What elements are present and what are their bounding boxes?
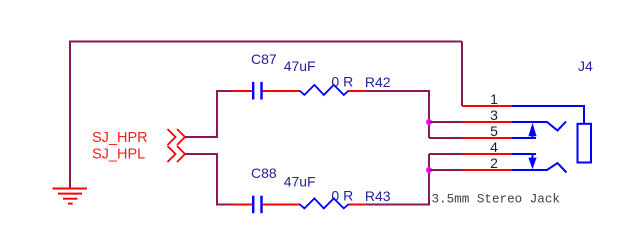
label R43 (365, 188, 391, 204)
svg-text:J4: J4 (578, 58, 593, 74)
pin lead C87 left (233, 90, 252, 92)
pin lead R43 right (349, 204, 365, 206)
pin lead C87 right (263, 90, 300, 92)
resistor R42 (299, 85, 348, 95)
wire pin3 row (429, 121, 462, 123)
svg-text:C88: C88 (251, 165, 277, 181)
value 47uF (C88) (284, 174, 316, 190)
svg-text:3.5mm Stereo Jack: 3.5mm Stereo Jack (432, 193, 560, 207)
wire pin1 branch vertical (461, 42, 463, 107)
pin 4 lead (462, 153, 512, 155)
wire C87 row left (216, 90, 233, 92)
label J4 (578, 58, 593, 74)
pin number 5 (490, 123, 498, 139)
wire SJ_HPR to C87 (186, 91, 218, 137)
pin lead C88 right (263, 204, 300, 206)
pin2 internal wire and ring contact (512, 163, 567, 173)
svg-text:C87: C87 (251, 51, 277, 67)
down arrow (tip contact, pin4) (528, 154, 536, 169)
pin5 internal wire (512, 137, 536, 139)
svg-text:2: 2 (490, 155, 498, 171)
off-page connector SJ_HPL (168, 146, 186, 162)
pin 3 lead (462, 121, 512, 123)
wire R42 to junction (365, 91, 429, 138)
svg-text:3: 3 (490, 107, 498, 123)
connector J4 sleeve rectangle (578, 124, 592, 163)
resistor R43 (299, 198, 348, 208)
up arrow (tip contact, pin5) (528, 123, 536, 138)
label C88 (251, 165, 277, 181)
pin number 1 (490, 91, 498, 107)
net label SJ_HPR (92, 130, 148, 146)
junction dot pins 4/2 (426, 167, 432, 173)
net label SJ_HPL (92, 147, 145, 163)
wire pin2 row (429, 169, 462, 171)
wire C88 row left (216, 204, 233, 206)
svg-text:4: 4 (490, 139, 498, 155)
pin number 4 (490, 139, 498, 155)
label R42 (365, 74, 391, 90)
svg-text:SJ_HPR: SJ_HPR (92, 130, 148, 146)
wire pin5 row (429, 137, 462, 139)
pin lead R42 right (349, 90, 365, 92)
svg-text:R43: R43 (365, 188, 391, 204)
part description 3.5mm Stereo Jack (432, 193, 560, 207)
value 0 R (R42) (331, 73, 353, 89)
wire top horizontal from ground branch to J4 pin1 branch (70, 41, 462, 43)
pin number 3 (490, 107, 498, 123)
capacitor C87 (253, 82, 261, 100)
value 47uF (C87) (284, 58, 316, 74)
pin 2 lead (462, 169, 512, 171)
svg-text:0 R: 0 R (331, 73, 353, 89)
label C87 (251, 51, 277, 67)
wire left vertical down to ground (69, 41, 71, 189)
svg-text:5: 5 (490, 123, 498, 139)
wire pin4 row (429, 153, 462, 155)
pin number 2 (490, 155, 498, 171)
capacitor C88 (253, 196, 261, 214)
svg-text:SJ_HPL: SJ_HPL (92, 147, 145, 163)
pin4 internal wire (512, 153, 536, 155)
pin 5 lead (462, 137, 512, 139)
connector J4 body: pin1 internal wire to sleeve (512, 106, 584, 124)
value 0 R (R43) (331, 188, 353, 204)
svg-text:47uF: 47uF (284, 58, 316, 74)
svg-text:R42: R42 (365, 74, 391, 90)
pin 1 lead (462, 105, 512, 107)
wire SJ_HPL to C88 (186, 154, 218, 205)
off-page connector SJ_HPR (168, 129, 186, 145)
pin3 internal wire and ring contact (512, 122, 566, 131)
ground (53, 189, 88, 204)
svg-text:47uF: 47uF (284, 174, 316, 190)
junction dot pins 3/5 (426, 119, 432, 125)
pin lead C88 left (233, 204, 252, 206)
svg-text:0 R: 0 R (331, 188, 353, 204)
wire R43 to junction (365, 154, 429, 205)
svg-text:1: 1 (490, 91, 498, 107)
